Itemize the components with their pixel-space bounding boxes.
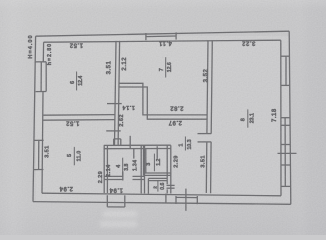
window right wall lower (multi-pane): [281, 117, 290, 119]
window right wall upper: [281, 55, 290, 57]
room4 left wall: [103, 145, 105, 193]
room4 bottom wall with door gap: [104, 175, 144, 177]
room3 left wall: [143, 145, 145, 175]
wall room7-8 / room1-8: [206, 40, 208, 193]
room1 left wall: [166, 145, 168, 193]
inner wall top: [44, 40, 281, 42]
porch left small: [106, 195, 108, 207]
room2 door hatch: [167, 184, 175, 186]
window top wall room7: [145, 33, 147, 40]
room3 label bar: [153, 154, 155, 172]
vent shaft box: [114, 139, 121, 146]
window left wall room5: [34, 139, 44, 141]
room7 label bar: [165, 57, 167, 77]
room6 label bar: [76, 72, 78, 91]
inner wall bottom: [42, 193, 281, 196]
door tick lower on corridor wall: [106, 130, 121, 132]
outer wall right: [289, 31, 291, 204]
window left wall room6: [35, 61, 46, 63]
vent jamb line: [129, 136, 131, 149]
room2 top wall: [148, 177, 167, 179]
wall room6/room5: [43, 114, 115, 117]
door tick upper on corridor wall: [107, 103, 122, 105]
outer wall bottom: [33, 202, 291, 205]
room4 label bar: [122, 158, 124, 176]
porch step line: [185, 189, 187, 211]
room2 label bar: [157, 181, 159, 192]
stepped wall room7 bottom (corridor side): [119, 87, 207, 119]
wall top of rooms 4 and 3: [104, 144, 171, 146]
door leaf room4: [133, 149, 135, 159]
inner wall left: [42, 42, 44, 193]
porch centre: [175, 196, 177, 204]
stepped wall room7 bottom (room7 side): [119, 83, 207, 115]
room4 door tick: [122, 172, 124, 181]
inner wall right: [280, 40, 282, 196]
door ticks room1/room8: [198, 133, 212, 135]
window divider tick: [278, 152, 297, 154]
room3 bottom wall: [144, 172, 171, 174]
room4 right wall: [140, 145, 142, 193]
entrance door tick: [165, 194, 167, 204]
outer wall top: [36, 31, 290, 36]
room1 label bar: [184, 137, 186, 151]
room8 label bar: [247, 109, 249, 127]
room5 label bar: [73, 147, 75, 165]
door leaf room3: [156, 146, 158, 158]
outer wall left: [33, 36, 36, 201]
wall between room6/room7 and corridor left wall: [115, 41, 117, 145]
room2 left wall: [147, 178, 149, 193]
